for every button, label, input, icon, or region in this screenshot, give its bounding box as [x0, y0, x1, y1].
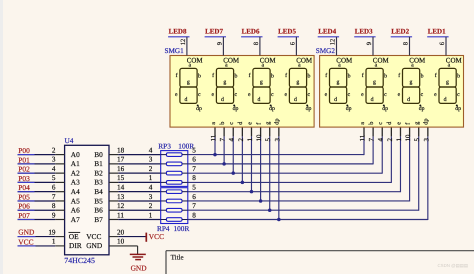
svg-text:b: b — [308, 73, 311, 80]
svg-text:B1: B1 — [94, 159, 103, 168]
svg-text:A7: A7 — [71, 215, 80, 224]
svg-text:b: b — [457, 73, 460, 80]
svg-text:1: 1 — [52, 238, 56, 246]
svg-text:CSDN @▤▤▤: CSDN @▤▤▤ — [438, 263, 469, 268]
svg-text:4: 4 — [229, 138, 236, 142]
svg-text:a: a — [338, 62, 341, 68]
svg-text:f: f — [176, 72, 178, 79]
svg-text:c: c — [377, 122, 384, 125]
svg-text:5: 5 — [192, 183, 196, 191]
svg-text:LED2: LED2 — [391, 27, 409, 35]
svg-text:5: 5 — [192, 146, 196, 154]
svg-text:g: g — [446, 79, 449, 85]
svg-text:b: b — [421, 73, 424, 80]
svg-text:dp: dp — [196, 105, 202, 112]
svg-text:1: 1 — [247, 138, 254, 142]
svg-text:a: a — [359, 122, 366, 125]
svg-text:e: e — [175, 92, 178, 98]
svg-text:3: 3 — [52, 156, 56, 164]
svg-text:e: e — [398, 92, 401, 98]
svg-text:a: a — [375, 62, 378, 68]
svg-text:10: 10 — [117, 238, 125, 246]
svg-text:A0: A0 — [71, 150, 80, 159]
svg-text:e: e — [212, 92, 215, 98]
svg-text:P00: P00 — [18, 146, 30, 155]
svg-text:d: d — [407, 96, 410, 103]
svg-text:B7: B7 — [94, 215, 103, 224]
svg-text:d: d — [371, 96, 374, 103]
svg-text:15: 15 — [117, 174, 125, 182]
svg-text:14: 14 — [117, 183, 125, 191]
svg-text:LED6: LED6 — [242, 27, 260, 35]
svg-text:g: g — [260, 79, 263, 85]
svg-text:LED1: LED1 — [428, 27, 446, 35]
svg-text:A4: A4 — [71, 187, 80, 196]
svg-text:f: f — [435, 72, 437, 79]
svg-text:B5: B5 — [94, 196, 103, 205]
svg-text:8: 8 — [403, 42, 410, 45]
svg-text:7: 7 — [52, 193, 56, 201]
svg-text:g: g — [223, 79, 226, 85]
svg-text:A2: A2 — [71, 168, 80, 177]
svg-text:A5: A5 — [71, 196, 80, 205]
svg-text:g: g — [296, 79, 299, 85]
svg-text:A6: A6 — [71, 206, 80, 215]
svg-text:7: 7 — [220, 138, 227, 142]
svg-text:a: a — [448, 62, 451, 68]
svg-text:e: e — [434, 92, 437, 98]
svg-text:VCC: VCC — [86, 232, 101, 241]
svg-text:GND: GND — [86, 241, 103, 250]
svg-text:B2: B2 — [94, 168, 103, 177]
svg-text:8: 8 — [52, 202, 56, 210]
svg-text:6: 6 — [192, 156, 196, 164]
svg-text:b: b — [368, 122, 375, 125]
svg-text:A1: A1 — [71, 159, 80, 168]
svg-text:e: e — [395, 122, 402, 125]
svg-text:c: c — [384, 92, 387, 98]
svg-text:8: 8 — [253, 42, 260, 45]
svg-text:a: a — [225, 62, 228, 68]
svg-text:9: 9 — [52, 211, 56, 219]
svg-text:4: 4 — [149, 183, 153, 191]
svg-text:d: d — [221, 96, 224, 103]
svg-text:P04: P04 — [18, 183, 30, 192]
svg-text:B0: B0 — [94, 150, 103, 159]
svg-text:d: d — [258, 96, 261, 103]
svg-text:6: 6 — [52, 183, 56, 191]
svg-text:20: 20 — [117, 228, 125, 236]
svg-text:1: 1 — [149, 174, 153, 182]
svg-text:f: f — [325, 72, 327, 79]
svg-text:f: f — [212, 72, 214, 79]
svg-text:B3: B3 — [94, 178, 103, 187]
svg-text:a: a — [262, 62, 265, 68]
svg-text:P01: P01 — [18, 155, 30, 164]
svg-text:SMG1: SMG1 — [165, 47, 185, 55]
svg-text:11: 11 — [117, 211, 124, 219]
svg-text:4: 4 — [52, 165, 56, 173]
svg-text:g: g — [410, 79, 413, 85]
svg-text:d: d — [444, 96, 447, 103]
svg-text:P02: P02 — [18, 165, 30, 174]
svg-text:g: g — [373, 79, 376, 85]
svg-text:RP4: RP4 — [157, 224, 170, 233]
svg-text:c: c — [198, 92, 201, 98]
svg-text:b: b — [219, 122, 226, 125]
svg-text:19: 19 — [48, 228, 56, 236]
svg-text:7: 7 — [192, 165, 196, 173]
svg-text:4: 4 — [149, 146, 153, 154]
svg-text:10: 10 — [256, 134, 263, 141]
svg-text:5: 5 — [265, 138, 272, 142]
svg-text:P03: P03 — [18, 174, 30, 183]
svg-text:g: g — [414, 122, 421, 125]
svg-text:2: 2 — [149, 165, 153, 173]
svg-text:1: 1 — [396, 138, 403, 142]
svg-text:g: g — [337, 79, 340, 85]
svg-text:5: 5 — [52, 174, 56, 182]
svg-text:e: e — [285, 92, 288, 98]
svg-text:f: f — [249, 72, 251, 79]
svg-text:e: e — [248, 92, 251, 98]
svg-text:2: 2 — [238, 138, 245, 142]
svg-text:8: 8 — [192, 211, 196, 219]
svg-text:2: 2 — [387, 138, 394, 142]
svg-text:c: c — [457, 92, 460, 98]
svg-text:10: 10 — [405, 134, 412, 141]
svg-text:dp: dp — [382, 105, 388, 112]
svg-text:LED8: LED8 — [169, 27, 187, 35]
svg-text:dp: dp — [419, 105, 425, 112]
svg-text:B6: B6 — [94, 206, 103, 215]
svg-text:LED3: LED3 — [355, 27, 373, 35]
svg-text:100R: 100R — [174, 224, 190, 233]
svg-text:2: 2 — [52, 146, 56, 154]
svg-text:B4: B4 — [94, 187, 103, 196]
svg-text:dp: dp — [269, 105, 275, 112]
svg-text:b: b — [384, 73, 387, 80]
svg-text:GND: GND — [18, 227, 35, 236]
svg-text:DIR: DIR — [69, 241, 82, 250]
svg-text:9: 9 — [216, 42, 223, 45]
svg-text:12: 12 — [330, 39, 337, 46]
svg-text:e: e — [325, 92, 328, 98]
svg-text:a: a — [411, 62, 414, 68]
svg-text:3: 3 — [423, 138, 430, 142]
svg-text:dp: dp — [233, 105, 239, 112]
svg-text:dp: dp — [455, 105, 461, 112]
svg-text:b: b — [271, 73, 274, 80]
svg-text:f: f — [362, 72, 364, 79]
svg-text:12: 12 — [180, 39, 187, 46]
svg-text:2: 2 — [149, 202, 153, 210]
svg-text:VCC: VCC — [149, 232, 164, 241]
svg-text:dp: dp — [346, 105, 352, 112]
svg-text:LED7: LED7 — [205, 27, 223, 35]
svg-text:13: 13 — [117, 193, 125, 201]
svg-text:P07: P07 — [18, 211, 30, 220]
svg-text:e: e — [361, 92, 364, 98]
svg-text:c: c — [421, 92, 424, 98]
svg-text:c: c — [348, 92, 351, 98]
svg-text:9: 9 — [366, 42, 373, 45]
svg-text:a: a — [189, 62, 192, 68]
svg-text:d: d — [334, 96, 337, 103]
svg-text:3: 3 — [274, 138, 281, 142]
svg-text:U4: U4 — [65, 136, 74, 145]
svg-text:16: 16 — [117, 165, 125, 173]
svg-text:dp: dp — [306, 105, 312, 112]
svg-text:7: 7 — [369, 138, 376, 142]
svg-text:OE: OE — [69, 232, 79, 241]
svg-text:3: 3 — [149, 156, 153, 164]
svg-text:3: 3 — [149, 193, 153, 201]
svg-text:g: g — [265, 122, 272, 125]
svg-text:b: b — [235, 73, 238, 80]
svg-text:8: 8 — [192, 174, 196, 182]
svg-text:g: g — [187, 79, 190, 85]
svg-text:dp: dp — [423, 119, 430, 125]
svg-text:P06: P06 — [18, 202, 30, 211]
svg-text:74HC245: 74HC245 — [64, 256, 95, 265]
svg-text:b: b — [348, 73, 351, 80]
svg-text:1: 1 — [149, 211, 153, 219]
svg-text:c: c — [235, 92, 238, 98]
svg-text:A3: A3 — [71, 178, 80, 187]
svg-text:7: 7 — [192, 202, 196, 210]
svg-text:dp: dp — [274, 119, 281, 125]
svg-text:LED4: LED4 — [318, 27, 336, 35]
svg-text:P05: P05 — [18, 192, 30, 201]
svg-text:d: d — [185, 96, 188, 103]
svg-text:4: 4 — [378, 138, 385, 142]
svg-text:6: 6 — [192, 193, 196, 201]
svg-text:c: c — [308, 92, 311, 98]
svg-text:c: c — [228, 122, 235, 125]
svg-text:Title: Title — [171, 253, 184, 261]
svg-text:RP3: RP3 — [158, 142, 171, 151]
svg-text:18: 18 — [117, 146, 125, 154]
svg-text:d: d — [294, 96, 297, 103]
svg-text:GND: GND — [131, 264, 148, 273]
svg-text:LED5: LED5 — [278, 27, 296, 35]
svg-text:f: f — [285, 72, 287, 79]
svg-text:b: b — [198, 73, 201, 80]
svg-text:SMG2: SMG2 — [316, 47, 336, 55]
svg-text:VCC: VCC — [18, 237, 33, 246]
svg-text:f: f — [398, 72, 400, 79]
svg-text:11: 11 — [211, 134, 218, 141]
svg-text:a: a — [298, 62, 301, 68]
svg-text:e: e — [246, 122, 253, 125]
svg-text:a: a — [210, 122, 217, 125]
svg-text:11: 11 — [360, 134, 367, 141]
svg-text:12: 12 — [117, 202, 125, 210]
svg-text:5: 5 — [414, 138, 421, 142]
svg-text:17: 17 — [117, 156, 125, 164]
svg-text:c: c — [271, 92, 274, 98]
